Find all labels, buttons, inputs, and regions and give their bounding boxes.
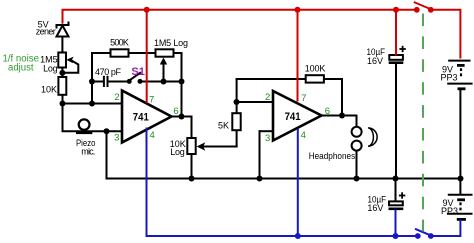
wire: +V rail right of switch to battery B1 <box>431 10 461 59</box>
wire: output corner down to 10K log pot <box>191 116 193 139</box>
wire: 0V rail horizontal <box>107 178 461 180</box>
wire: op1 pin4 down and along bottom <box>147 128 418 237</box>
op-amp U1 741 <box>122 91 172 143</box>
wire: 500K right to 1M5 pot <box>129 52 156 54</box>
wire: 100K right to corner <box>324 78 343 80</box>
wire: 10K log pot bottom to 0V rail <box>191 154 193 180</box>
wire: headphone top feed vertical <box>356 115 358 128</box>
wire: battery column vertical between batteries <box>459 89 461 195</box>
wire: S1 right to x181 vertical <box>140 81 183 83</box>
resistor R2 500K <box>111 49 129 56</box>
wire: 1M5 pot wiper down to S1 line <box>163 62 165 83</box>
headphones jack circles <box>352 127 362 151</box>
red +V rail <box>63 2 461 103</box>
svg-text:741: 741 <box>133 111 149 123</box>
wire: cap/S1 line left part <box>91 81 103 83</box>
svg-text:4: 4 <box>301 130 306 141</box>
resistor R1 10K <box>58 77 66 95</box>
wire: op2 pin7 <box>297 10 299 102</box>
resistor R4 100K <box>306 75 324 82</box>
potentiometer VR3 wiper arrow <box>197 142 206 150</box>
svg-text:S1: S1 <box>131 66 145 78</box>
wire: op1 pin7 <box>146 10 148 103</box>
wire: 1M5 pot right to corner <box>174 52 183 54</box>
svg-text:16V: 16V <box>367 203 383 213</box>
potentiometer VR2 1M5 Log body <box>156 49 174 56</box>
wire: blue rail right of switch up to battery B2 <box>431 220 461 237</box>
wire: bottom cap feed from 0V rail <box>395 179 397 202</box>
svg-text:adjust: adjust <box>8 63 34 74</box>
capacitor C2 10uF 16V (top) <box>389 46 406 63</box>
wire: headphone bottom to 0V rail <box>356 151 358 180</box>
svg-text:3: 3 <box>114 133 119 144</box>
blue 0V battery rail <box>147 128 461 237</box>
wire: +V rail left section <box>63 10 417 24</box>
wire: op2 output to headphone corner <box>321 115 358 117</box>
svg-text:Log: Log <box>170 147 185 157</box>
wire: zener to pot top <box>61 36 63 54</box>
node: pin3 rail junction <box>104 128 110 134</box>
wire: op2 pin4 down <box>297 129 299 236</box>
wire: feedback corner down to output <box>341 78 343 116</box>
wire: 5K column vertical upper to feedback <box>236 78 238 114</box>
wire: pin3 piezo horizontal to op1 pin3 <box>62 130 123 132</box>
svg-text:zener: zener <box>36 26 56 36</box>
node: op2 output junction <box>339 113 345 119</box>
node: 10Klog bottom on 0V rail <box>189 176 195 182</box>
zener diode D1 5V <box>57 22 69 37</box>
switch S2b contacts (blue) <box>415 233 421 239</box>
svg-text:3: 3 <box>265 133 270 144</box>
svg-text:2: 2 <box>114 92 119 103</box>
op-amp U2 741 <box>273 91 322 141</box>
wire: 10K bottom to pin2 node <box>62 95 64 105</box>
wire: top cap feed <box>395 10 397 56</box>
wire: op2 pin3 down to 0V rail <box>259 130 261 179</box>
capacitor C3 10uF 16V (bottom) <box>389 192 406 209</box>
wire: feedback top horizontal to 100K <box>236 78 306 80</box>
potentiometer VR2 wiper arrow <box>160 58 167 65</box>
node: op2 pin4 on blue rail <box>295 233 301 239</box>
node: op2 pin3 on 0V rail <box>257 176 263 182</box>
svg-text:741: 741 <box>285 111 301 123</box>
node: pin2 left junction <box>60 101 66 107</box>
svg-text:Headphones: Headphones <box>309 151 356 161</box>
wire: op2 pin3 horizontal <box>259 130 274 132</box>
svg-text:16V: 16V <box>367 56 383 66</box>
svg-text:500K: 500K <box>110 37 129 47</box>
wire: pin3 node down to 0V rail <box>106 131 108 179</box>
wire: top cap to 0V rail vertical <box>395 64 397 179</box>
node: 470pF left junction <box>89 79 95 85</box>
node: cap column on 0V rail <box>393 176 399 182</box>
resistor R3 5K <box>232 113 240 130</box>
switch S2a lever (red) <box>414 2 431 9</box>
node: VR1 bottom junction <box>59 70 65 76</box>
piezo mic <box>76 119 92 134</box>
wire: pin2 node horizontal (10K bottom to op1 pin2) <box>62 103 123 105</box>
capacitor C1 470pF <box>104 76 108 87</box>
wire: bottom cap to blue rail <box>395 210 397 237</box>
switch S1 <box>127 72 143 84</box>
wire: piezo branch vertical <box>62 103 64 132</box>
node: headphones on 0V rail <box>354 176 360 182</box>
battery B2 9V PP3 (bottom) <box>447 195 473 220</box>
switch S2b lever (blue) <box>415 229 431 236</box>
ganged switch linkage (green dashed) <box>422 14 424 232</box>
headphones band arc <box>368 128 377 146</box>
wire: op2 pin2 horizontal <box>237 101 274 103</box>
node: op1 output junction <box>179 114 185 120</box>
wire: pot bottom to 10K top <box>61 67 63 78</box>
svg-text:mic.: mic. <box>81 146 95 156</box>
svg-text:470 pF: 470 pF <box>95 67 122 77</box>
node: op2 pin2 junction <box>234 99 240 105</box>
node: wiper junction on S1 line <box>161 79 167 85</box>
switch S2a contacts (red) <box>414 7 420 13</box>
svg-text:PP3: PP3 <box>441 206 458 216</box>
potentiometer VR3 10K Log body <box>187 138 195 154</box>
svg-text:Log: Log <box>43 63 58 73</box>
wire: 500K/470pF branch vertical <box>91 52 93 105</box>
node: right branch on S1 line <box>179 79 185 85</box>
node: op2 pin7 on +V rail <box>295 7 301 13</box>
wire: 5K column vertical lower <box>236 130 238 148</box>
svg-text:7: 7 <box>301 93 306 104</box>
svg-text:100K: 100K <box>305 64 326 74</box>
svg-text:6: 6 <box>173 106 178 117</box>
svg-text:7: 7 <box>149 94 154 105</box>
svg-text:2: 2 <box>265 92 270 103</box>
wire: 10K log wiper horizontal to 5K column <box>203 146 238 148</box>
svg-text:6: 6 <box>325 106 330 117</box>
node: op1 pin7 on +V rail <box>144 7 150 13</box>
wire: op1 output <box>171 116 193 118</box>
svg-text:1M5 Log: 1M5 Log <box>154 38 188 48</box>
potentiometer VR1 1M5 Log body <box>58 53 66 68</box>
potentiometer VR1 wiper <box>64 57 79 73</box>
wire: right corner vertical down to output node <box>181 52 183 117</box>
svg-text:5K: 5K <box>218 121 229 131</box>
node: pin2 mid junction <box>89 101 95 107</box>
svg-text:PP3: PP3 <box>441 72 458 82</box>
battery B1 9V PP3 (top) <box>447 61 472 89</box>
wire: 500K left horizontal <box>91 52 111 54</box>
node: battery column on 0V rail <box>458 176 464 182</box>
wire: cap right plate to S1 <box>109 81 129 83</box>
svg-text:4: 4 <box>149 130 154 141</box>
node: cap on blue rail <box>393 233 399 239</box>
node: cap feed on +V rail <box>393 7 399 13</box>
svg-text:10K: 10K <box>41 85 57 95</box>
label 1/f noise adjust (green) <box>3 54 40 74</box>
